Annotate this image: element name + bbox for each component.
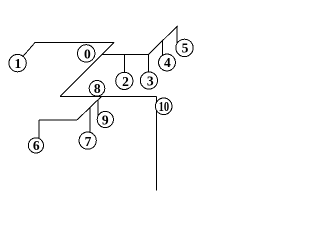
node 1	[9, 54, 26, 71]
svg-text:4: 4	[164, 55, 171, 70]
wire: top horizontal rail	[35, 41, 114, 43]
wire: node 1 to top rail	[23, 42, 35, 56]
svg-text:0: 0	[84, 46, 91, 61]
wire: diagonal to apex	[149, 26, 178, 55]
svg-text:5: 5	[182, 41, 189, 56]
wire: drop to node 7	[89, 108, 91, 133]
svg-text:10: 10	[159, 99, 170, 114]
wire: apex drop to node 5	[176, 26, 178, 44]
node 4	[159, 54, 176, 71]
wire: drop to node 6	[38, 120, 40, 139]
wire: drop to node 3	[147, 54, 149, 72]
wire: bottom horizontal rail	[60, 95, 156, 97]
node 7	[79, 132, 96, 149]
node 6	[28, 138, 43, 153]
svg-text:3: 3	[147, 74, 154, 89]
wire: drop to node 9	[97, 100, 99, 116]
node 10	[155, 98, 172, 115]
svg-text:9: 9	[102, 112, 109, 127]
svg-text:2: 2	[122, 74, 129, 89]
node 8	[89, 81, 105, 97]
node 3	[140, 72, 157, 89]
wire: drop to node 4	[161, 41, 163, 55]
svg-text:7: 7	[85, 134, 92, 149]
wire: long vertical at right	[155, 96, 157, 190]
wire: big diagonal top rail to bottom rail	[60, 42, 114, 96]
svg-text:6: 6	[33, 138, 40, 153]
node 9	[97, 111, 113, 127]
svg-text:8: 8	[94, 81, 101, 96]
wire: lower diagonal	[77, 96, 101, 119]
node 0	[78, 45, 95, 62]
wire: drop to node 2	[123, 54, 125, 72]
wire: right horizontal rail	[103, 53, 149, 55]
node 5	[176, 39, 193, 56]
svg-text:1: 1	[15, 56, 22, 71]
node 2	[116, 72, 133, 89]
wire: lower horizontal rail	[39, 119, 77, 121]
